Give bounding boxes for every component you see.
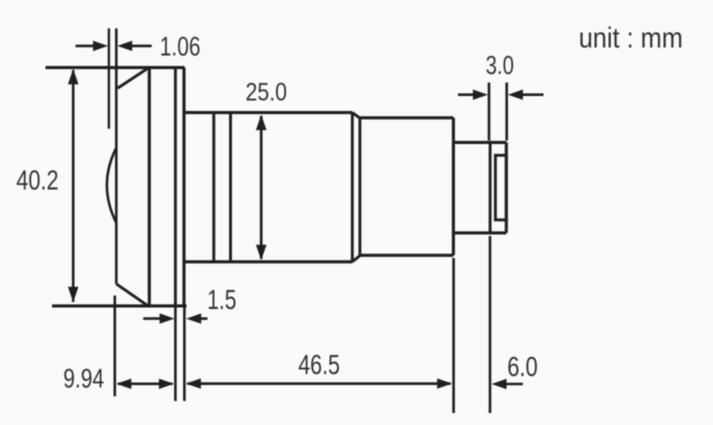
dim 46.5 line: [188, 382, 451, 385]
svg-text:3.0: 3.0: [486, 52, 514, 80]
rear block top: [453, 141, 506, 144]
svg-text:1.06: 1.06: [160, 31, 201, 61]
svg-text:25.0: 25.0: [246, 79, 288, 107]
arrowhead 9.94 right: [159, 379, 174, 389]
arrowhead 1.5 left: [160, 313, 175, 323]
svg-text:40.2: 40.2: [16, 164, 58, 195]
svg-text:1.5: 1.5: [207, 284, 236, 315]
dim 25.0 line: [260, 116, 263, 259]
arrowhead 1.06 right: [117, 41, 132, 51]
arrowhead 6.0: [492, 379, 507, 389]
mid barrel top: [184, 111, 352, 114]
dim 1.5 right tail: [200, 317, 208, 320]
mid barrel groove 1: [212, 113, 215, 262]
dim 3.0 ext line left: [488, 83, 491, 141]
mid barrel groove 2: [229, 113, 232, 262]
rear block bottom: [453, 231, 506, 234]
arrowhead 46.5 right: [437, 378, 452, 388]
dim 3.0 ext line right: [505, 83, 508, 141]
rear block divider: [489, 142, 492, 233]
housing groove vertical: [174, 68, 177, 306]
lens housing bottom edge: [52, 304, 187, 307]
rear inner rectangle: [495, 155, 506, 220]
junction vertical 1: [351, 113, 354, 262]
dim 6.0 tail: [505, 383, 523, 386]
bottom chamfer: [116, 284, 147, 305]
arrowhead 25.0 up: [256, 115, 267, 131]
arrowhead 1.5 right: [186, 313, 201, 323]
arrowhead 46.5 left: [186, 378, 201, 388]
svg-text:6.0: 6.0: [507, 351, 538, 382]
top chamfer: [118, 68, 148, 88]
dim 1.06 left tail: [76, 45, 96, 48]
arrowhead 40.2 down: [68, 287, 79, 303]
arrowhead 9.94 left: [116, 379, 131, 389]
dim 46.5 right ext line: [452, 258, 455, 413]
arrowhead 40.2 up: [68, 69, 79, 85]
junction vertical 2: [358, 118, 361, 256]
arrowhead 3.0 left: [473, 90, 488, 100]
big barrel right edge: [452, 118, 455, 256]
dim 40.2 line: [72, 70, 75, 302]
dim 3.0 right tail: [521, 93, 544, 96]
arrowhead 25.0 down: [256, 245, 267, 261]
big barrel bottom: [360, 254, 454, 257]
dim 1.5/46.5 shared ext line: [183, 306, 186, 401]
dim 6.0 ext line: [489, 236, 492, 413]
arrowhead 3.0 right: [508, 90, 523, 100]
dim 9.94 line: [118, 382, 173, 385]
junction bottom chamfer: [352, 256, 360, 262]
svg-text:unit : mm: unit : mm: [579, 22, 683, 54]
dim 3.0 left tail: [458, 93, 475, 96]
mid barrel bottom: [184, 260, 352, 263]
rear block right edge: [505, 142, 508, 233]
glass apex extension line: [108, 28, 110, 128]
dim 9.94/1.5 shared ext line: [174, 306, 177, 401]
glass front face line: [115, 28, 118, 284]
big barrel top: [360, 116, 454, 119]
svg-text:9.94: 9.94: [63, 363, 104, 394]
junction top chamfer: [352, 113, 360, 119]
housing front ring vertical: [148, 68, 151, 306]
dim 1.5 left tail: [143, 317, 161, 320]
dim 9.94 ext line left: [114, 296, 117, 397]
dome lens curve: [107, 149, 116, 222]
dim 1.06 right tail: [131, 45, 152, 48]
arrowhead 1.06 left: [93, 41, 108, 51]
lens housing top edge: [46, 66, 185, 69]
housing right edge: [182, 68, 185, 306]
svg-text:46.5: 46.5: [298, 349, 340, 380]
